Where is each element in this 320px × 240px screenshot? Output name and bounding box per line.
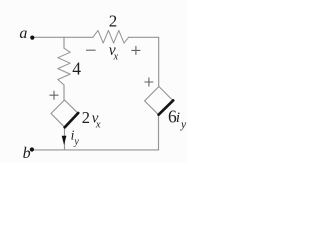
- wire top from node a to resistor 2: [34, 36, 93, 38]
- dependent source 6iy thick edge: [159, 100, 174, 114]
- wire source 2vx to bottom wire: [64, 127, 66, 150]
- svg-text:y: y: [180, 119, 187, 131]
- svg-text:2: 2: [109, 11, 118, 30]
- resistor 2 zigzag: [93, 30, 129, 43]
- wire bottom from right branch to node b: [34, 149, 159, 151]
- plus sign of vx: [131, 46, 140, 55]
- dependent source 2vx thick edge: [65, 113, 79, 127]
- dependent source 2vx diamond thin edges: [51, 100, 78, 127]
- dependent source 6iy diamond thin edges: [145, 87, 173, 115]
- wire resistor 2 to top-right corner and down: [129, 37, 159, 86]
- resistor 4 zigzag: [58, 48, 70, 85]
- svg-text:i: i: [176, 110, 180, 126]
- svg-text:x: x: [113, 51, 119, 62]
- plus sign of source 6iy: [144, 78, 153, 87]
- node a dot: [30, 36, 34, 40]
- svg-text:a: a: [19, 25, 27, 42]
- svg-text:b: b: [23, 145, 31, 162]
- svg-text:2: 2: [82, 108, 90, 127]
- current arrow iy head: [62, 136, 67, 145]
- wire source 6iy to bottom wire: [158, 115, 160, 150]
- wire junction stub to resistor 4: [63, 37, 65, 48]
- svg-text:x: x: [95, 120, 101, 131]
- node b dot: [30, 147, 34, 151]
- svg-text:y: y: [73, 137, 79, 148]
- wire resistor 4 to source 2vx: [63, 85, 65, 100]
- plus sign of source 2vx: [50, 91, 59, 100]
- svg-text:4: 4: [72, 58, 81, 78]
- minus sign of vx: [86, 49, 96, 51]
